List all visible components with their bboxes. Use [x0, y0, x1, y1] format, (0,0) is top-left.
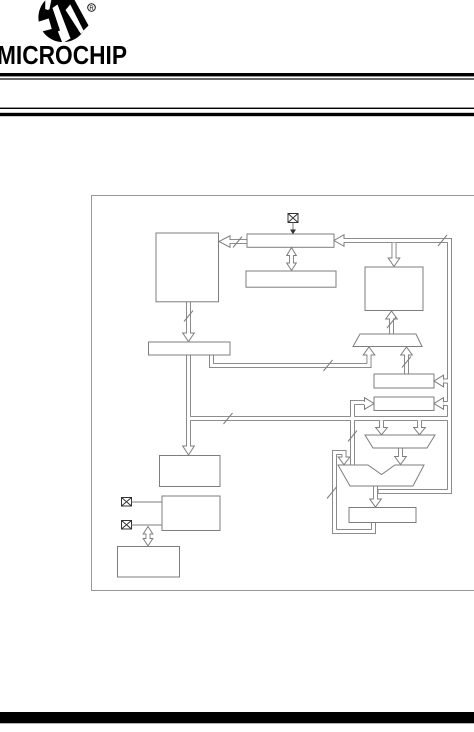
wire: pin1 to box B — [132, 501, 163, 503]
box: register 1 — [374, 374, 434, 388]
arrowhead: top double arrow up — [287, 248, 297, 256]
wire: stub into box1 right — [444, 379, 450, 384]
arrowhead: into box2 right — [434, 398, 444, 410]
arrowhead: into top long box right — [334, 235, 344, 247]
wire: drop to mux2 left — [379, 421, 384, 429]
wire: top bus right run, right vertical bus, bottom run — [344, 241, 450, 492]
wire: stem of top double arrow — [289, 255, 294, 264]
bus wires outer strokes — [148, 241, 450, 541]
header rule thin bottom — [0, 108, 474, 109]
slash: on big box to long register — [184, 311, 193, 322]
arrowhead: feedback into ALU left — [338, 457, 350, 465]
registered trademark symbol — [88, 4, 96, 12]
pin symbol 1 (crossed box) — [122, 498, 132, 507]
arrowhead: top double arrow down — [287, 263, 297, 271]
slash: on top right bus — [438, 235, 447, 246]
arrowhead: into long register top — [183, 333, 195, 342]
box: program bus register (top long box) — [247, 234, 334, 247]
slash: on horizontal data bus — [224, 413, 233, 424]
arrowhead: into box A top — [183, 446, 195, 455]
arrowhead: into box2 left — [365, 398, 375, 410]
slash: on feedback riser — [327, 487, 337, 499]
arrowhead: mux1 left input up — [363, 347, 375, 355]
diagram frame — [92, 196, 474, 591]
arrowhead: mux1 right input up — [401, 347, 413, 355]
wire: drop into right register box — [392, 243, 397, 258]
wire: mux2 output — [398, 448, 403, 457]
arrowhead: into big box left — [219, 236, 230, 248]
header rule thin top — [0, 78, 474, 79]
arrowhead: bottom double arrow down — [143, 539, 153, 547]
slash: on ALU-to-box2 riser — [348, 431, 357, 442]
wire: stem of bottom double arrow — [146, 532, 151, 540]
box: instruction decode (middle box) — [246, 271, 336, 287]
slash: on mux1 to right register — [387, 317, 396, 328]
solid arrowhead into top long box — [290, 230, 296, 235]
arrowhead: bottom double arrow up — [143, 527, 153, 535]
wire: long register to mux1 left input — [212, 355, 370, 366]
wire: ALU top up to box2 left — [353, 403, 365, 466]
box: RAM file registers (right box) — [365, 267, 423, 311]
box: program counter (long register) — [149, 342, 231, 355]
pin symbol 2 (crossed box) — [122, 521, 132, 530]
wire: W register feedback loop to ALU — [335, 453, 374, 532]
box: A (instruction reg) — [160, 456, 221, 487]
wire: stub into box2 right — [444, 401, 450, 406]
ALU — [338, 465, 424, 486]
wire: pin2 to box B — [132, 524, 163, 526]
arrowhead: into mux2 top right — [414, 428, 426, 435]
pin symbol top (crossed box) — [288, 214, 298, 223]
wire: box1 top to mux1 right input — [404, 355, 409, 374]
Microchip logo icon (black disc with stylized M) — [36, 0, 95, 43]
box: W register — [349, 508, 416, 523]
arrowhead: mux2 output into ALU — [395, 457, 407, 465]
mux M1 (addr mux) — [353, 334, 422, 347]
slash: on box1 to mux1 — [402, 357, 411, 368]
hollow arrowheads — [143, 235, 443, 546]
bus width slash marks — [184, 235, 447, 499]
box: register 2 — [374, 397, 434, 411]
wire: horizontal data bus — [187, 416, 450, 421]
box: C (oscillator) — [118, 547, 180, 578]
arrowhead: mux1 up into right register bottom — [386, 311, 398, 319]
arrowhead: into right register top — [388, 258, 400, 267]
svg-text:R: R — [89, 6, 94, 12]
footer black bar — [0, 712, 474, 723]
wire: program bus to left big box — [230, 239, 247, 244]
wire: ALU output to W register — [373, 486, 378, 499]
wire: mux1 top to right register — [389, 319, 394, 334]
slash: on bus into big box — [233, 237, 242, 248]
wire: big box down to long register — [186, 302, 191, 333]
mux M2 (data mux) — [365, 435, 435, 448]
arrowhead: into box1 right — [434, 375, 444, 387]
arrowhead: into mux2 top left — [376, 428, 388, 435]
header rule thick top — [0, 73, 474, 76]
slash: on mux1 left feed — [324, 360, 333, 371]
box: B (timing control) — [162, 496, 220, 531]
box: program memory (left big box) — [156, 233, 219, 302]
wire: long register down to box A — [186, 355, 191, 446]
bus wires inner channel — [148, 241, 450, 541]
wire: drop to mux2 right — [417, 421, 422, 429]
wire: pin stem — [292, 223, 294, 231]
header rule thick bottom — [0, 113, 474, 116]
svg-text:MICROCHIP: MICROCHIP — [0, 42, 127, 70]
arrowhead: ALU output into W register — [370, 499, 382, 507]
